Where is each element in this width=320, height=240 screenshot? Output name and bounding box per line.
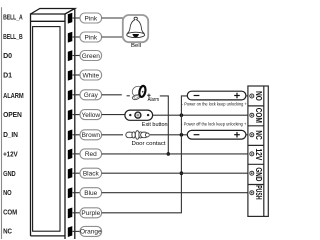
terminal name labels (left column) <box>3 14 24 235</box>
svg-text:Blue: Blue <box>84 190 97 197</box>
wire color tag Blue (NO) <box>80 188 102 198</box>
wire color tag White (D1) <box>80 70 102 80</box>
svg-text:D0: D0 <box>3 53 12 60</box>
wire Gray to alarm <box>102 94 122 96</box>
alarm siren icon <box>132 85 147 100</box>
pin 4 D1 <box>68 70 73 81</box>
svg-text:- Power on the lock keep unloc: - Power on the lock keep unlocking + <box>182 102 247 107</box>
wire pin2 to Pink tag <box>73 36 81 38</box>
wire pin7 to Brown tag <box>73 134 81 136</box>
pin 1 BELL_A <box>68 13 73 24</box>
svg-text:GND: GND <box>3 171 16 178</box>
terminal screw NO <box>250 94 254 98</box>
svg-text:Purple: Purple <box>81 210 100 217</box>
wire color tag Pink (BELL_B) <box>80 32 102 42</box>
svg-text:White: White <box>82 72 99 79</box>
pin 10 NO <box>68 187 73 198</box>
wire color tag Pink (BELL_A) <box>80 13 102 23</box>
battery B1 (power-on lock supply) <box>187 91 246 100</box>
svg-text:Alarm: Alarm <box>148 97 160 103</box>
wire alarm to +12V line <box>160 96 169 154</box>
wire pin6 to Yellow tag <box>73 114 81 116</box>
wire pin9 to Black tag <box>73 172 81 174</box>
svg-text:Orange: Orange <box>80 229 102 236</box>
wire Black to GND terminal <box>102 172 250 174</box>
terminal screw NC <box>250 133 254 137</box>
svg-text:Pink: Pink <box>84 15 97 22</box>
svg-text:Red: Red <box>85 151 97 158</box>
wire color tag Black (GND) <box>80 168 102 178</box>
terminal screw 12V <box>250 152 254 156</box>
terminal screw GND <box>250 171 254 175</box>
wire color tag Yellow (OPEN) <box>80 110 102 120</box>
pin 2 BELL_B <box>68 32 73 43</box>
wire battery B1 to NO terminal <box>246 95 250 97</box>
bell icon <box>127 17 145 37</box>
svg-text:BELL_A: BELL_A <box>3 14 23 21</box>
wire color tag Red (+12V) <box>80 149 102 159</box>
svg-text:12V: 12V <box>254 148 263 160</box>
junction exit/bus <box>180 113 184 117</box>
svg-text:D1: D1 <box>3 73 12 80</box>
svg-text:COM: COM <box>3 210 17 217</box>
controller terminal block J1 (3D housing) <box>31 9 75 240</box>
wire Pink2 to bell <box>102 36 123 38</box>
svg-text:Yellow: Yellow <box>82 112 101 119</box>
svg-text:Pink: Pink <box>84 34 97 41</box>
exit button S1 <box>125 110 153 120</box>
svg-text:Door contact: Door contact <box>132 141 166 147</box>
pin 12 NC <box>68 226 73 237</box>
alarm minus sign <box>127 95 130 97</box>
controller front panel inner rect <box>33 27 60 232</box>
pin 6 OPEN <box>68 109 73 120</box>
svg-text:D_IN: D_IN <box>3 132 18 139</box>
wire pin5 to Gray tag <box>73 94 81 96</box>
bell housing box <box>123 15 148 42</box>
svg-text:Gray: Gray <box>84 92 99 99</box>
left frame edge line <box>1 7 3 239</box>
wire pin10 to Blue tag <box>73 192 81 194</box>
junction alarm/+12V <box>167 152 171 156</box>
wire pin11 to Purple tag <box>73 212 81 214</box>
svg-text:Black: Black <box>83 171 100 178</box>
battery B2 (power-off lock supply) <box>187 130 246 139</box>
wire pin4 to White tag <box>73 74 81 76</box>
wire Red to 12V terminal <box>102 153 250 155</box>
svg-text:PUSH: PUSH <box>254 185 263 200</box>
wire color tag Gray (ALARM) <box>80 90 102 100</box>
pin 11 COM <box>68 208 73 219</box>
bus wire (COM rail vertical) <box>102 96 188 213</box>
alarm plus sign <box>147 94 150 97</box>
svg-text:BELL_B: BELL_B <box>3 34 23 41</box>
svg-text:Green: Green <box>82 53 100 60</box>
svg-text:ALARM: ALARM <box>3 93 24 100</box>
terminal screw PUSH <box>250 191 254 195</box>
wire color tag Brown (D_IN) <box>80 130 102 140</box>
svg-text:NC: NC <box>3 228 12 235</box>
wire Pink1 to bell <box>102 17 123 19</box>
wire Yellow to exit button <box>102 114 125 116</box>
svg-text:Exit button: Exit button <box>142 122 168 128</box>
terminal screw COM <box>250 113 254 117</box>
svg-text:GND: GND <box>254 167 263 181</box>
pin 5 ALARM <box>68 90 73 101</box>
junction door-contact/bus <box>180 133 184 137</box>
pin 3 D0 <box>68 50 73 61</box>
svg-text:OPEN: OPEN <box>3 112 22 119</box>
pin 8 +12V <box>68 149 73 160</box>
lock terminal strip TB1 <box>248 86 268 216</box>
wire color tag Orange (NC) <box>80 226 102 236</box>
svg-text:NC: NC <box>254 130 263 140</box>
wire pin12 to Orange tag <box>73 230 81 232</box>
wire Brown to door contact <box>102 134 123 136</box>
pin 9 GND <box>68 168 73 179</box>
wire Blue to PUSH terminal <box>102 192 250 194</box>
wire exit button to COM terminal <box>153 114 250 116</box>
wire pin1 to Pink tag <box>73 17 81 19</box>
svg-text:NO: NO <box>3 190 12 197</box>
pin 7 D_IN <box>68 130 73 141</box>
svg-text:NO: NO <box>254 91 263 101</box>
wire pin8 to Red tag <box>73 153 81 155</box>
junction bus/GND <box>180 171 184 175</box>
svg-text:COM: COM <box>254 108 263 123</box>
svg-text:Bell: Bell <box>131 43 141 49</box>
door contact sensor <box>126 131 149 140</box>
wire color tag Green (D0) <box>80 51 102 61</box>
svg-text:+12V: +12V <box>3 152 18 159</box>
wire color tag Purple (COM) <box>80 208 102 218</box>
svg-text:- Power off the lock keep unlo: - Power off the lock keep unlocking + <box>181 122 246 127</box>
wire pin3 to Green tag <box>73 55 81 57</box>
svg-text:Brown: Brown <box>82 132 101 139</box>
wire door contact to bus/battery2 <box>150 134 188 136</box>
wire battery B2 to NC terminal <box>246 134 250 136</box>
